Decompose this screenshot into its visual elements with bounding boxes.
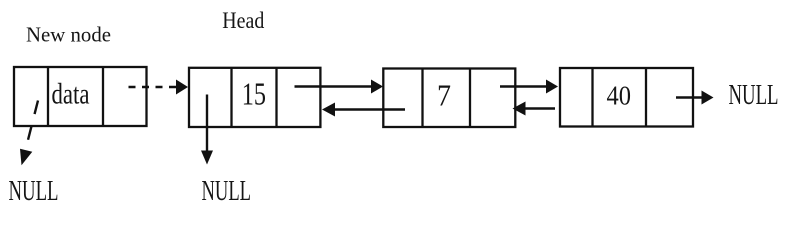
svg-text:NULL: NULL — [9, 176, 59, 207]
dashed wire: New node prev pointer down-left — [25, 101, 38, 152]
node box: New node (3 cells) — [14, 67, 147, 126]
arrowhead into node 40 — [546, 80, 558, 94]
svg-text:7: 7 — [437, 78, 451, 113]
arrowhead into node 7 — [371, 80, 383, 94]
arrowhead to NULL (down-left) — [20, 149, 32, 166]
node box: Head node with 15 (3 cells) — [189, 68, 320, 127]
wire: node 40 next to NULL — [676, 96, 702, 98]
arrowhead into Head node — [176, 80, 188, 95]
arrowhead down to NULL — [201, 151, 213, 165]
arrowhead into node 7 right edge — [513, 102, 526, 116]
svg-text:15: 15 — [242, 77, 266, 112]
dashed wire: New node next pointer to Head node — [129, 86, 178, 88]
wire: node 7 next to node 40 (forward arrow) — [500, 85, 547, 87]
svg-text:data: data — [52, 78, 90, 111]
wire: node 7 prev to Head (backward arrow) — [335, 108, 405, 110]
svg-text:NULL: NULL — [729, 80, 779, 111]
wire: Head next to node 7 (forward arrow) — [295, 85, 373, 87]
svg-text:40: 40 — [607, 80, 632, 110]
node box: node with 7 (3 cells) — [383, 69, 515, 128]
arrowhead to NULL (right) — [702, 91, 714, 105]
arrowhead into Head node right edge — [322, 103, 335, 117]
svg-text:Head: Head — [222, 8, 264, 33]
svg-text:New node: New node — [26, 22, 111, 46]
wire: node 40 prev to node 7 (backward arrow) — [525, 107, 555, 109]
svg-text:NULL: NULL — [202, 176, 252, 207]
node box: node with 40 (3 cells) — [560, 68, 693, 127]
wire: Head prev pointer down — [206, 95, 208, 153]
